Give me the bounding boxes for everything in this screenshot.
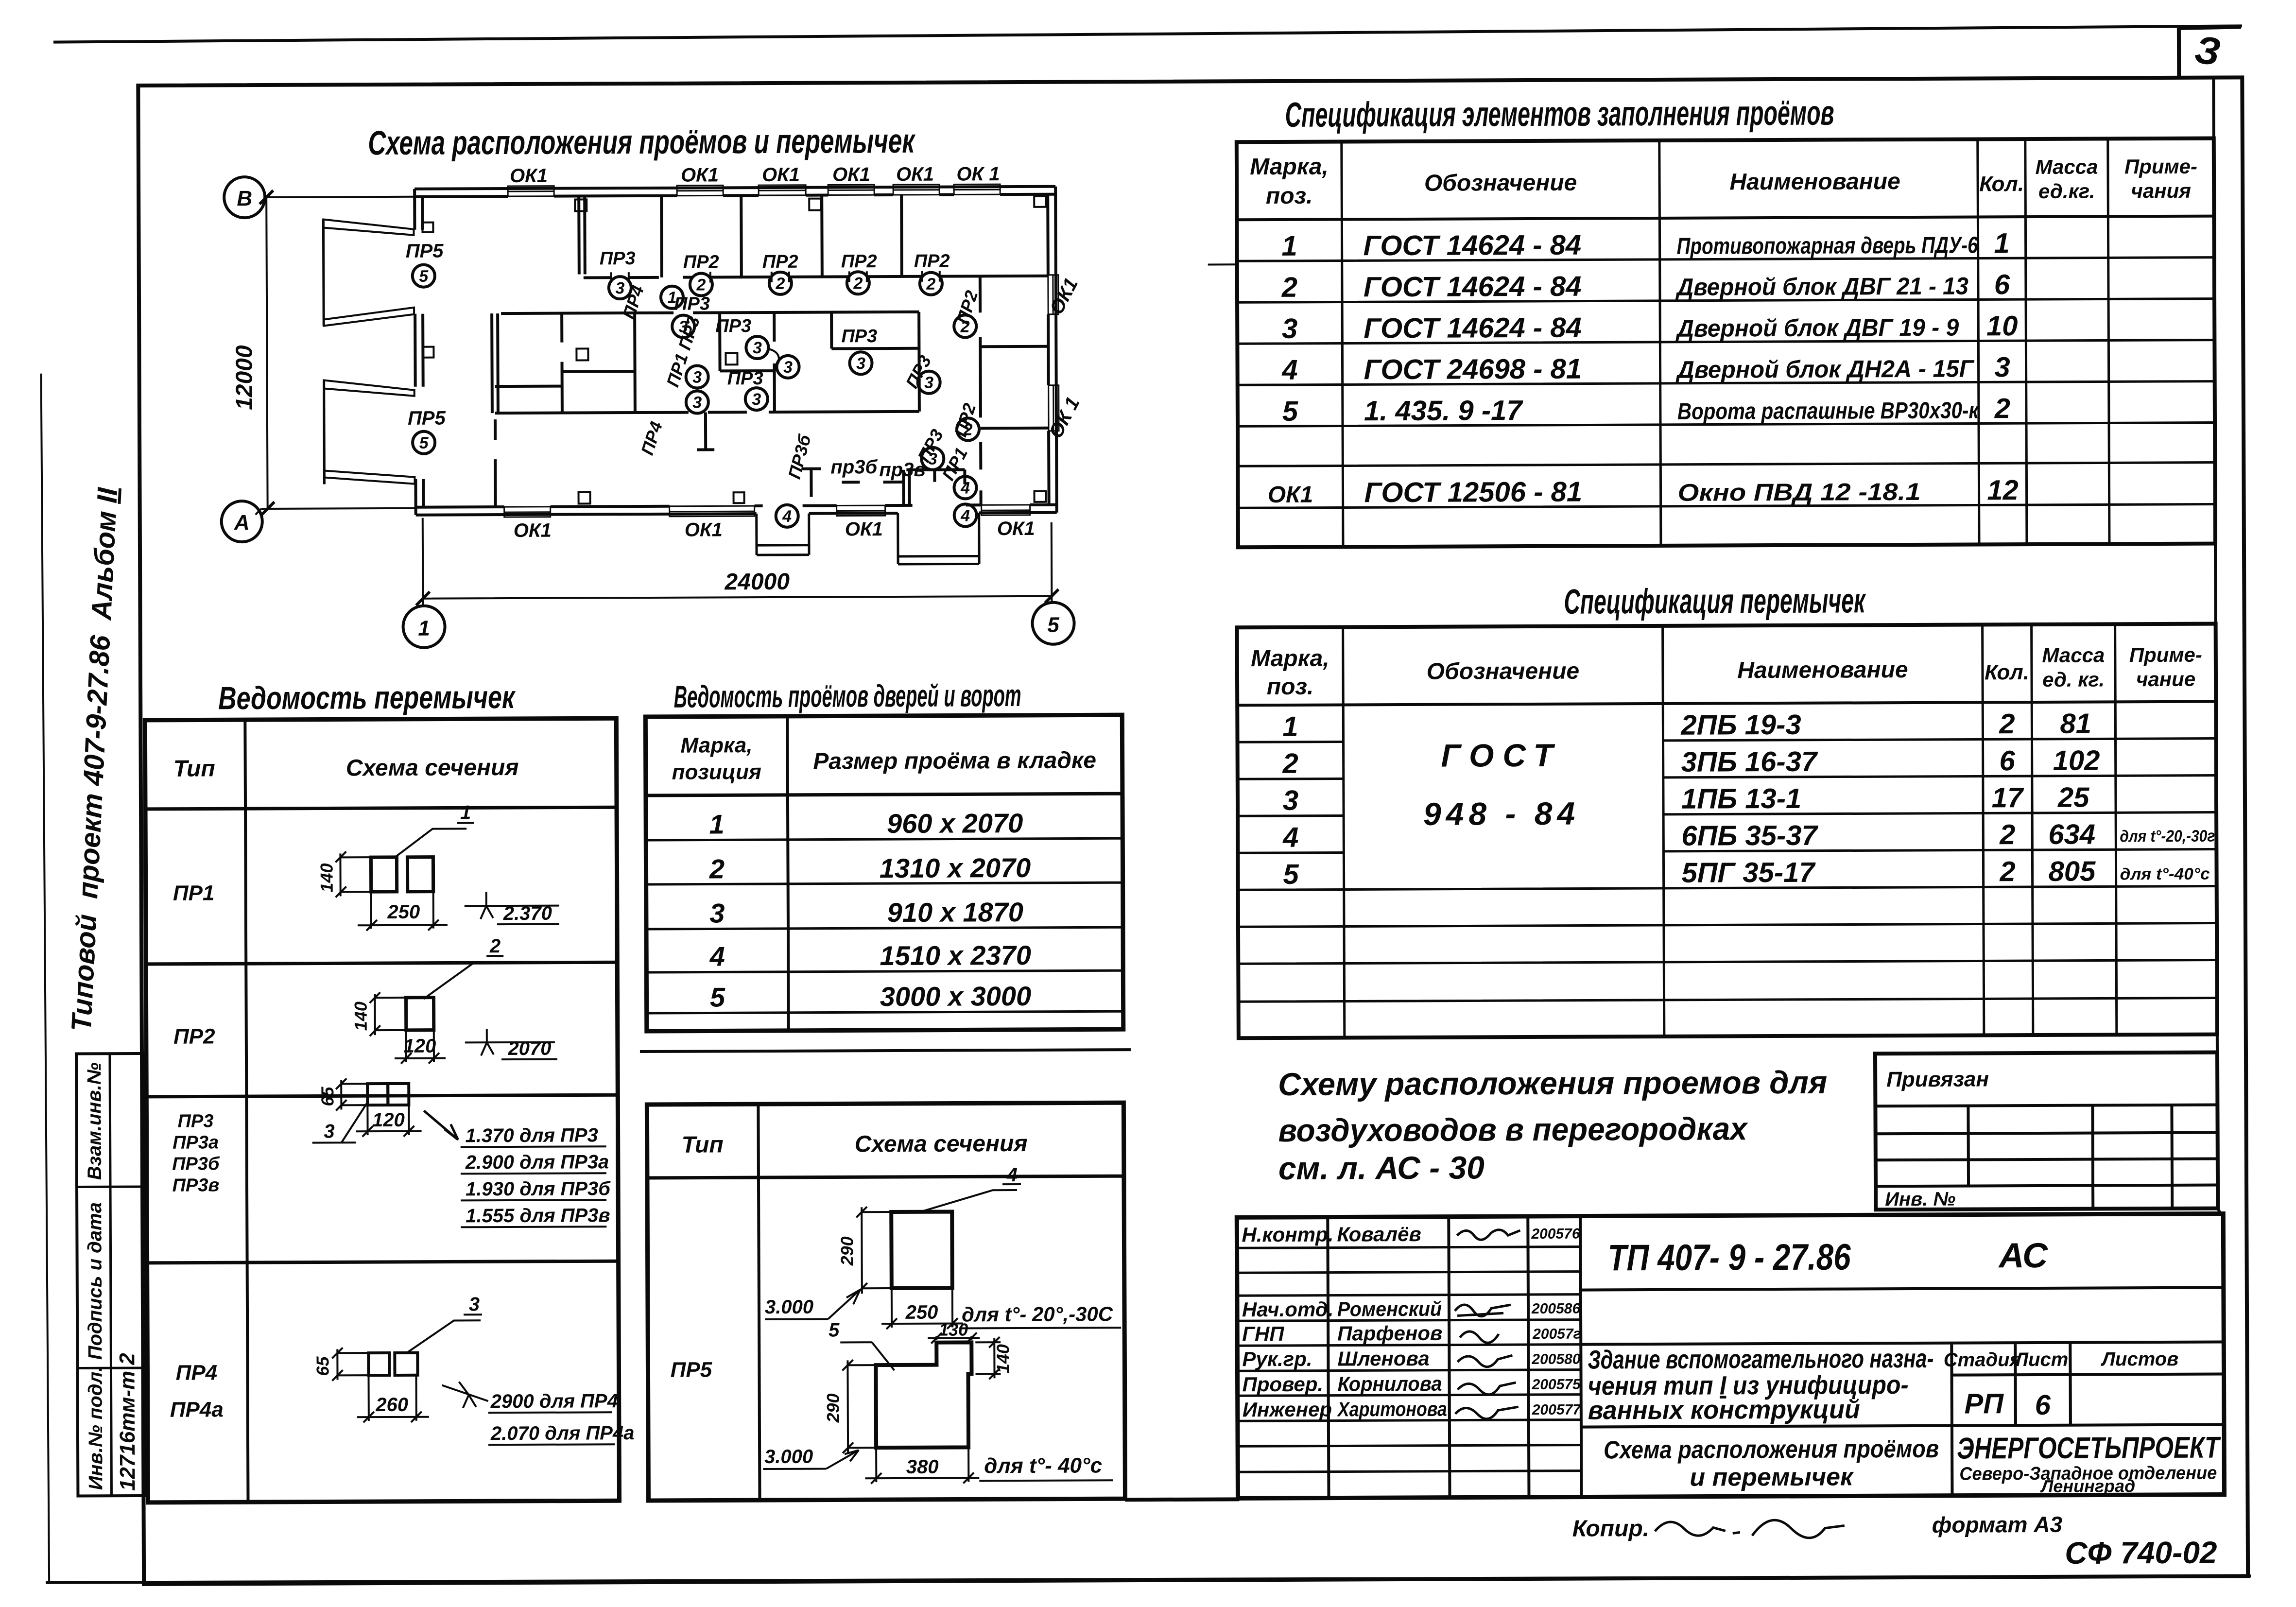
svg-text:Провер.: Провер. <box>1243 1373 1324 1396</box>
right side and porch lintel circles <box>775 315 980 527</box>
svg-text:2900 для ПР4: 2900 для ПР4 <box>490 1390 618 1412</box>
table 2 data <box>1282 708 2100 890</box>
svg-text:5: 5 <box>1047 613 1059 637</box>
svg-text:воздуховодов в перегородках: воздуховодов в перегородках <box>1278 1110 1748 1148</box>
row ПР3 labels <box>172 1111 220 1195</box>
table 1 headers <box>1250 151 2197 209</box>
svg-text:ПР5: ПР5 <box>406 241 444 262</box>
svg-text:Марка,: Марка, <box>1250 154 1329 180</box>
svg-text:Здание вспомогательного назна-: Здание вспомогательного назна- <box>1588 1344 1933 1375</box>
signature dates <box>1531 1226 1581 1418</box>
svg-text:Наименование: Наименование <box>1729 169 1900 195</box>
vedomost proemov data <box>708 808 1031 1013</box>
svg-text:3: 3 <box>783 358 793 377</box>
svg-text:Обозначение: Обозначение <box>1424 170 1577 196</box>
svg-text:5: 5 <box>419 434 429 452</box>
corridor wall door ticks <box>611 271 940 283</box>
стадия лист листов header <box>1944 1348 2179 1371</box>
dimension line 12000 with axis circles В and А <box>220 176 416 542</box>
svg-text:ОК1: ОК1 <box>1268 482 1313 508</box>
svg-text:4: 4 <box>709 941 725 971</box>
svg-text:1: 1 <box>460 802 471 823</box>
svg-text:ПР3: ПР3 <box>841 326 877 346</box>
svg-text:Взам.инв.№: Взам.инв.№ <box>84 1062 105 1180</box>
svg-text:Дверной блок ДН2А - 15Г: Дверной блок ДН2А - 15Г <box>1675 355 1975 383</box>
pr5 table grid <box>647 1103 1125 1501</box>
svg-text:260: 260 <box>375 1394 408 1416</box>
right wall outer line <box>1055 187 1057 513</box>
ПР3 section sketch <box>312 1077 611 1227</box>
svg-text:1: 1 <box>418 617 430 640</box>
gate 2 pier tick <box>423 347 433 358</box>
svg-text:1: 1 <box>1282 711 1298 743</box>
svg-text:ОК1: ОК1 <box>685 519 723 540</box>
svg-text:ГОСТ 12506 - 81: ГОСТ 12506 - 81 <box>1364 476 1582 509</box>
svg-text:ТП 407- 9 - 27.86: ТП 407- 9 - 27.86 <box>1607 1236 1851 1279</box>
svg-text:АС: АС <box>1998 1236 2048 1275</box>
sheet bottom border line <box>46 1574 2251 1584</box>
svg-text:Ведомость перемычек: Ведомость перемычек <box>218 679 516 716</box>
svg-text:4: 4 <box>960 506 970 525</box>
svg-text:ПР4а: ПР4а <box>170 1398 224 1421</box>
svg-text:81: 81 <box>2060 708 2091 740</box>
svg-text:2: 2 <box>926 275 935 294</box>
svg-text:250: 250 <box>905 1302 938 1323</box>
sanitary cluster inner walls <box>495 312 919 413</box>
table 1 grid <box>1208 138 2215 548</box>
svg-text:Инв.№ подл.: Инв.№ подл. <box>85 1366 106 1490</box>
svg-text:ЭНЕРГОСЕТЬПРОЕКТ: ЭНЕРГОСЕТЬПРОЕКТ <box>1957 1431 2221 1466</box>
svg-text:Масса: Масса <box>2035 155 2098 178</box>
svg-text:ПР3: ПР3 <box>727 368 763 389</box>
svg-text:17: 17 <box>1992 782 2025 813</box>
svg-text:6: 6 <box>1994 269 2010 300</box>
svg-text:25: 25 <box>2057 782 2090 813</box>
top wall windows ОК1 glazing <box>508 184 1000 196</box>
left margin stamp box <box>76 1054 144 1496</box>
svg-text:5: 5 <box>710 982 725 1012</box>
svg-text:Ворота распашные ВР30х30-к: Ворота распашные ВР30х30-к <box>1677 397 1980 424</box>
svg-text:1: 1 <box>1994 227 2010 259</box>
vestibule walls at porch 2 <box>903 469 965 505</box>
svg-text:ГОСТ: ГОСТ <box>1441 737 1562 774</box>
svg-text:В: В <box>237 187 252 210</box>
svg-text:Спецификация элементов запол: Спецификация элементов заполнения проёмо… <box>1285 94 1834 135</box>
signature row lines <box>1237 1247 1582 1472</box>
svg-text:для t°- 40°с: для t°- 40°с <box>984 1453 1102 1478</box>
svg-text:1ПБ 13-1: 1ПБ 13-1 <box>1681 783 1801 815</box>
right wall inner line segments <box>1048 194 1049 505</box>
vedomost peremychek grid <box>145 718 619 1503</box>
svg-text:2: 2 <box>1999 708 2015 740</box>
svg-text:СФ 740-02: СФ 740-02 <box>2065 1535 2217 1571</box>
svg-text:3: 3 <box>692 394 702 412</box>
svg-text:3: 3 <box>856 354 865 373</box>
bottom wall outer line segments <box>416 513 1057 515</box>
svg-text:ГОСТ 14624 - 84: ГОСТ 14624 - 84 <box>1364 271 1582 303</box>
svg-text:12716тм-т 2: 12716тм-т 2 <box>115 1353 139 1491</box>
svg-text:РП: РП <box>1964 1388 2004 1419</box>
svg-text:см. л. АС - 30: см. л. АС - 30 <box>1278 1149 1485 1186</box>
svg-text:2: 2 <box>1999 819 2016 850</box>
svg-text:пр3в: пр3в <box>879 459 925 481</box>
building top wall outer line <box>414 187 1055 189</box>
sanitary cluster outline <box>495 312 919 413</box>
svg-text:Марка,: Марка, <box>1251 646 1329 672</box>
svg-text:1510 х 2370: 1510 х 2370 <box>880 940 1031 971</box>
svg-text:2: 2 <box>1281 272 1298 303</box>
svg-text:ОК1: ОК1 <box>845 518 883 540</box>
svg-text:для t°- 20°,-30С: для t°- 20°,-30С <box>962 1302 1113 1326</box>
svg-text:ПР3: ПР3 <box>600 248 636 269</box>
svg-text:1.555 для ПР3в: 1.555 для ПР3в <box>466 1205 610 1227</box>
svg-text:102: 102 <box>2053 744 2100 776</box>
svg-text:Кол.: Кол. <box>1979 172 2024 196</box>
svg-text:ПР5: ПР5 <box>671 1358 712 1382</box>
svg-text:3.000: 3.000 <box>765 1296 813 1318</box>
svg-text:65: 65 <box>317 1086 337 1106</box>
svg-text:ПР2: ПР2 <box>683 252 719 272</box>
svg-text:и перемычек: и перемычек <box>1690 1463 1854 1491</box>
svg-text:1.370 для ПР3: 1.370 для ПР3 <box>466 1124 598 1146</box>
svg-text:ПР4: ПР4 <box>176 1361 218 1384</box>
svg-text:ОК1: ОК1 <box>514 520 552 541</box>
svg-text:3000 х 3000: 3000 х 3000 <box>880 981 1032 1012</box>
svg-text:Инв. №: Инв. № <box>1885 1189 1955 1210</box>
svg-text:Копир.: Копир. <box>1572 1516 1649 1542</box>
svg-text:Схему расположения проемов дл: Схему расположения проемов для <box>1278 1064 1827 1102</box>
svg-text:4: 4 <box>1282 822 1299 853</box>
svg-text:2.900 для ПР3а: 2.900 для ПР3а <box>465 1151 609 1173</box>
svg-text:4: 4 <box>1006 1164 1018 1186</box>
svg-text:948 - 84: 948 - 84 <box>1423 795 1580 832</box>
svg-text:Спецификация перемычек: Спецификация перемычек <box>1564 581 1866 621</box>
svg-text:для t°-40°с: для t°-40°с <box>2120 865 2210 884</box>
svg-text:ОК1: ОК1 <box>997 518 1035 539</box>
plan window labels ОК1 top <box>510 163 1000 187</box>
svg-text:4: 4 <box>782 507 792 526</box>
svg-text:805: 805 <box>2048 856 2096 887</box>
svg-text:5: 5 <box>419 267 429 286</box>
svg-text:1310 х 2070: 1310 х 2070 <box>880 852 1031 883</box>
svg-text:ПР2: ПР2 <box>762 252 798 272</box>
svg-text:ПР1: ПР1 <box>173 881 215 905</box>
svg-text:200586: 200586 <box>1531 1301 1581 1317</box>
svg-text:3: 3 <box>752 390 761 409</box>
svg-text:2: 2 <box>696 276 706 294</box>
right part dividers <box>1581 1288 2225 1497</box>
stub wall above bottom wall with top tick <box>801 469 821 497</box>
svg-text:Наименование: Наименование <box>1737 657 1908 683</box>
svg-text:Инженер: Инженер <box>1243 1398 1332 1421</box>
svg-text:5: 5 <box>1282 396 1298 427</box>
svg-text:ОК1: ОК1 <box>762 164 800 186</box>
svg-text:200577: 200577 <box>1532 1402 1582 1418</box>
signature columns <box>1328 1216 1581 1498</box>
svg-text:3.000: 3.000 <box>764 1446 813 1468</box>
svg-text:200575: 200575 <box>1532 1377 1582 1393</box>
vedomost proemov grid <box>639 715 1131 1052</box>
svg-text:140: 140 <box>351 1002 371 1031</box>
svg-text:позиция: позиция <box>672 760 762 784</box>
plan window labels ОК1 bottom <box>514 518 1035 541</box>
content bottom line segment <box>1125 1497 1240 1502</box>
svg-text:ОК1: ОК1 <box>832 164 870 185</box>
svg-text:ГОСТ 14624 - 84: ГОСТ 14624 - 84 <box>1364 312 1582 345</box>
svg-text:3: 3 <box>469 1294 480 1315</box>
tiny door post square in cluster <box>725 353 737 364</box>
svg-text:634: 634 <box>2048 819 2095 850</box>
svg-text:ПР3а: ПР3а <box>173 1132 219 1153</box>
gate 1 leaf wedges and swing line <box>322 220 325 326</box>
partition from top wall (tambour) <box>579 196 585 274</box>
svg-text:12000: 12000 <box>231 345 258 410</box>
svg-text:6ПБ 35-37: 6ПБ 35-37 <box>1681 820 1818 852</box>
building top wall inner line segments <box>414 194 1055 197</box>
right rooms partition <box>980 276 981 505</box>
svg-text:Схема сечения: Схема сечения <box>346 755 519 781</box>
svg-text:ОК1: ОК1 <box>510 165 548 187</box>
svg-text:290: 290 <box>837 1236 857 1266</box>
sheet left border line <box>41 374 50 1584</box>
svg-text:6: 6 <box>1999 745 2015 777</box>
svg-text:1.930 для ПР3б: 1.930 для ПР3б <box>466 1178 611 1200</box>
svg-text:2: 2 <box>963 420 973 439</box>
svg-text:чания: чания <box>2131 179 2191 202</box>
svg-text:910 х 1870: 910 х 1870 <box>887 897 1024 928</box>
svg-text:290: 290 <box>823 1393 843 1423</box>
svg-text:Рук.гр.: Рук.гр. <box>1242 1348 1312 1371</box>
svg-text:140: 140 <box>993 1344 1013 1373</box>
svg-text:Приме-: Приме- <box>2124 155 2197 178</box>
svg-text:3: 3 <box>324 1121 334 1142</box>
svg-text:960 х 2070: 960 х 2070 <box>887 808 1023 839</box>
svg-text:ГНП: ГНП <box>1242 1322 1284 1345</box>
svg-text:2: 2 <box>1994 393 2011 424</box>
svg-text:3: 3 <box>615 279 624 297</box>
svg-text:2070: 2070 <box>507 1038 551 1059</box>
svg-text:24000: 24000 <box>724 569 790 595</box>
ПР2 section sketch <box>350 935 557 1064</box>
building description <box>1588 1344 1934 1425</box>
ПР1 section sketch <box>316 802 559 931</box>
stub wall below cluster with end tick <box>697 412 714 449</box>
svg-text:Схема сечения: Схема сечения <box>855 1131 1028 1157</box>
lintel labels ПР2 over corridor doors <box>600 247 950 273</box>
gate 1 pier tick <box>422 223 433 232</box>
column ticks on walls <box>575 196 1047 504</box>
svg-text:Шленова: Шленова <box>1337 1347 1429 1370</box>
svg-text:2: 2 <box>489 935 501 957</box>
svg-text:Листов: Листов <box>2100 1348 2178 1370</box>
svg-text:1. 435. 9 -17: 1. 435. 9 -17 <box>1364 395 1524 427</box>
svg-text:Привязан: Привязан <box>1886 1067 1989 1091</box>
svg-text:200576: 200576 <box>1531 1226 1580 1242</box>
svg-text:ванных конструкций: ванных конструкций <box>1588 1395 1860 1425</box>
svg-text:поз.: поз. <box>1266 183 1313 209</box>
svg-text:поз.: поз. <box>1267 674 1314 700</box>
svg-text:2: 2 <box>1999 856 2016 887</box>
svg-text:Парфенов: Парфенов <box>1337 1322 1442 1345</box>
lintel circles on corridor wall <box>609 272 942 309</box>
svg-text:3: 3 <box>1283 785 1299 816</box>
svg-text:10: 10 <box>1986 310 2018 342</box>
svg-text:Окно ПВД 12 -18.1: Окно ПВД 12 -18.1 <box>1677 478 1920 506</box>
svg-text:1: 1 <box>709 809 724 839</box>
svg-text:65: 65 <box>312 1356 332 1376</box>
svg-text:Масса: Масса <box>2042 643 2105 666</box>
svg-text:Роменский: Роменский <box>1337 1297 1442 1321</box>
svg-text:пр3б: пр3б <box>830 456 878 478</box>
porch 2 (right крыльцо) <box>898 513 979 564</box>
svg-text:2: 2 <box>960 317 970 336</box>
svg-text:ГОСТ 14624 - 84: ГОСТ 14624 - 84 <box>1363 229 1581 262</box>
svg-text:2: 2 <box>709 853 725 884</box>
svg-text:3ПБ 16-37: 3ПБ 16-37 <box>1681 746 1818 778</box>
svg-text:ПР2: ПР2 <box>841 251 877 272</box>
svg-text:5: 5 <box>1283 859 1299 890</box>
svg-text:ПР3: ПР3 <box>674 294 710 314</box>
main hall partition (double) <box>492 313 498 413</box>
svg-text:3: 3 <box>1282 313 1298 345</box>
svg-text:140: 140 <box>316 863 336 892</box>
svg-text:ОК 1: ОК 1 <box>956 163 1000 185</box>
right content edge vertical connectors <box>2213 78 2220 1214</box>
gate 2 leaf wedges and swing line <box>323 380 326 484</box>
svg-text:Корнилова: Корнилова <box>1338 1372 1442 1396</box>
bottom wall windows ОК1 glazing <box>504 505 1030 517</box>
svg-text:5ПГ 35-17: 5ПГ 35-17 <box>1681 857 1816 889</box>
svg-text:Тип: Тип <box>173 756 215 781</box>
svg-text:120: 120 <box>403 1036 436 1057</box>
svg-text:Харитонова: Харитонова <box>1337 1398 1447 1421</box>
cluster lintel labels and circles <box>672 293 940 414</box>
svg-text:6: 6 <box>2035 1389 2051 1421</box>
svg-text:3: 3 <box>1994 351 2010 383</box>
svg-text:Ленинград: Ленинград <box>2039 1476 2135 1496</box>
svg-text:1: 1 <box>1281 230 1297 262</box>
svg-text:120: 120 <box>372 1109 405 1131</box>
ПР4 section sketch <box>312 1293 635 1446</box>
main hall partition lower segment <box>494 419 497 507</box>
svg-text:4: 4 <box>960 479 970 497</box>
right rooms dividers <box>980 276 1049 429</box>
svg-text:2: 2 <box>775 275 785 293</box>
svg-text:ОК1: ОК1 <box>896 164 934 185</box>
svg-text:2ПБ 19-3: 2ПБ 19-3 <box>1680 709 1801 741</box>
svg-text:Кол.: Кол. <box>1985 660 2029 684</box>
svg-text:Дверной блок ДВГ 19 - 9: Дверной блок ДВГ 19 - 9 <box>1675 314 1959 342</box>
svg-text:3: 3 <box>753 339 762 357</box>
pr5 upper section sketch <box>764 1164 1121 1330</box>
right wall windows ОК1 glazing <box>1048 275 1059 431</box>
small lintel dashes пр3б пр3в <box>842 481 903 484</box>
svg-text:Ведомость проёмов дверей и вор: Ведомость проёмов дверей и ворот <box>674 678 1021 714</box>
svg-text:Приме-: Приме- <box>2129 643 2202 667</box>
svg-text:200580: 200580 <box>1531 1351 1581 1367</box>
pr5 lower section sketch <box>762 1318 1113 1484</box>
svg-text:Нач.отд.: Нач.отд. <box>1242 1298 1334 1321</box>
svg-text:Обозначение: Обозначение <box>1427 658 1580 685</box>
porch 1 (left крыльцо) <box>757 514 809 555</box>
svg-text:ОК1: ОК1 <box>681 164 719 186</box>
svg-text:Схема расположения проёмов и: Схема расположения проёмов и перемычек <box>368 122 916 162</box>
svg-text:Схема расположения проёмов: Схема расположения проёмов <box>1604 1435 1939 1465</box>
svg-text:4: 4 <box>1281 354 1298 386</box>
svg-text:2.370: 2.370 <box>503 903 552 924</box>
svg-text:12: 12 <box>1987 474 2019 506</box>
svg-text:3: 3 <box>928 450 937 468</box>
svg-text:для t°-20,-30г: для t°-20,-30г <box>2120 827 2215 846</box>
interior corridor wall <box>584 276 980 277</box>
svg-text:2: 2 <box>853 274 863 293</box>
svg-text:ПР5: ПР5 <box>408 408 446 429</box>
svg-text:ПР3б: ПР3б <box>172 1154 220 1174</box>
table 2 headers <box>1251 642 2202 700</box>
svg-text:Противопожарная дверь ПДУ-6: Противопожарная дверь ПДУ-6 <box>1677 232 1978 259</box>
sheet number corner box <box>2179 27 2241 76</box>
svg-text:Стадия: Стадия <box>1944 1349 2021 1371</box>
table 2 grid <box>1237 624 2217 1038</box>
svg-text:ПР3: ПР3 <box>715 316 751 336</box>
svg-text:Марка,: Марка, <box>680 733 752 758</box>
svg-text:20057г: 20057г <box>1532 1326 1581 1342</box>
signature table texts <box>1242 1223 1447 1421</box>
table 1 data rows <box>1267 227 2019 509</box>
svg-text:3: 3 <box>692 368 702 387</box>
svg-text:380: 380 <box>906 1456 939 1478</box>
svg-text:Размер проёма в кладке: Размер проёма в кладке <box>813 747 1096 774</box>
top room partitions <box>661 195 902 277</box>
rotated small labels near partitions <box>618 282 982 485</box>
svg-text:3: 3 <box>709 898 725 928</box>
svg-text:ПР3: ПР3 <box>178 1111 214 1131</box>
svg-text:130: 130 <box>939 1319 968 1339</box>
svg-text:ед.кг.: ед.кг. <box>2038 180 2095 203</box>
svg-text:2.070 для ПР4а: 2.070 для ПР4а <box>490 1422 635 1444</box>
svg-text:Подпись и дата: Подпись и дата <box>84 1202 106 1360</box>
svg-text:Лист: Лист <box>2013 1349 2068 1370</box>
svg-text:ПР2: ПР2 <box>914 251 950 272</box>
bottom wall inner line segments <box>416 505 1057 507</box>
svg-text:ед. кг.: ед. кг. <box>2042 668 2105 691</box>
sheet top border line <box>53 26 2242 42</box>
svg-text:ПР3в: ПР3в <box>173 1175 220 1195</box>
signature scribbles <box>1454 1230 1520 1419</box>
svg-text:5: 5 <box>829 1319 840 1341</box>
svg-text:Ковалёв: Ковалёв <box>1337 1223 1421 1246</box>
svg-text:250: 250 <box>387 901 420 923</box>
svg-text:ПР2: ПР2 <box>173 1024 215 1048</box>
svg-text:формат А3: формат А3 <box>1932 1512 2063 1538</box>
svg-text:2: 2 <box>1282 748 1298 779</box>
svg-text:Дверной блок ДВГ 21 - 13: Дверной блок ДВГ 21 - 13 <box>1675 273 1968 301</box>
svg-text:ГОСТ 24698 - 81: ГОСТ 24698 - 81 <box>1364 353 1582 386</box>
dimension line 24000 with axis circles 1 and 5 <box>403 516 1074 648</box>
svg-text:Н.контр.: Н.контр. <box>1242 1223 1333 1246</box>
svg-text:Тип: Тип <box>682 1132 724 1158</box>
left wall segments (with gate openings) <box>414 189 424 515</box>
svg-text:А: А <box>234 511 250 535</box>
svg-text:чание: чание <box>2136 668 2195 691</box>
